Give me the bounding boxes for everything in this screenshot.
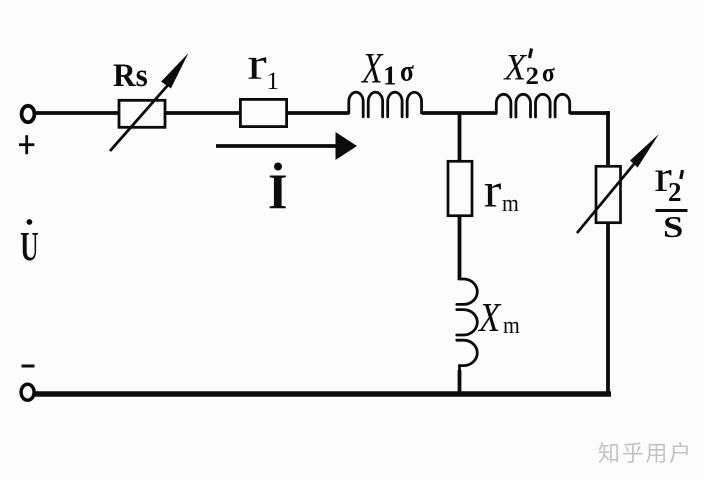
svg-text:I: I [268, 163, 287, 219]
node: junction to magnetizing branch [458, 113, 462, 162]
svg-text:U: U [20, 225, 38, 269]
svg-text:S: S [663, 210, 683, 244]
svg-text:2: 2 [526, 62, 539, 90]
wire: right side down to r2/S [606, 111, 610, 167]
rheostat r2'/S box [596, 166, 621, 222]
rheostat Rs box [119, 100, 165, 127]
rheostat Rs arrow [110, 53, 189, 151]
wire: r1 to X1s coil [287, 111, 349, 115]
svg-text:1: 1 [383, 61, 397, 91]
wire: Rs to r1 [165, 111, 240, 115]
label r2'/S fraction [654, 152, 672, 201]
resistor r1 box [240, 99, 286, 126]
svg-text:X: X [477, 295, 502, 340]
svg-text:r: r [484, 164, 502, 218]
svg-text:r: r [247, 40, 266, 89]
svg-text:Rs: Rs [113, 56, 148, 93]
wire: Xm coil to bottom rail [458, 370, 462, 394]
wire: r2/S to bottom rail [606, 222, 610, 394]
wire: coil X1s to X2s through node [422, 111, 497, 115]
svg-text:知乎用户: 知乎用户 [598, 441, 693, 466]
bottom rail wire [35, 391, 611, 397]
label r1 [247, 40, 266, 89]
svg-text:σ: σ [542, 59, 555, 87]
label I (current) [274, 163, 282, 171]
rheostat r2'/S arrow [577, 134, 659, 233]
wire: rm to Xm coil [458, 216, 462, 280]
plus sign [19, 135, 34, 154]
inductor Xm coil (vertical) [457, 277, 478, 372]
svg-text:X: X [360, 46, 383, 93]
svg-text:2: 2 [668, 177, 682, 207]
svg-text:m: m [503, 312, 520, 338]
wire: terminal to Rs [35, 111, 119, 115]
inductor X1s coil [349, 92, 422, 117]
svg-text:m: m [502, 190, 519, 216]
label Xm [477, 295, 502, 340]
label U (voltage) [27, 219, 33, 225]
current arrow I [216, 132, 357, 160]
terminal bottom-left (-) [21, 384, 34, 400]
resistor rm box [448, 161, 472, 215]
label Rs [113, 56, 148, 93]
terminal top-left (+) [22, 106, 35, 122]
svg-text:σ: σ [400, 55, 414, 88]
minus sign [22, 365, 35, 368]
svg-text:1: 1 [267, 68, 280, 95]
label X2s' [503, 47, 528, 88]
label X1s [360, 46, 383, 93]
inductor X2s coil [496, 94, 569, 117]
label rm [484, 164, 502, 218]
wire: X2s coil to right corner [570, 111, 610, 115]
svg-text:X: X [503, 47, 528, 88]
